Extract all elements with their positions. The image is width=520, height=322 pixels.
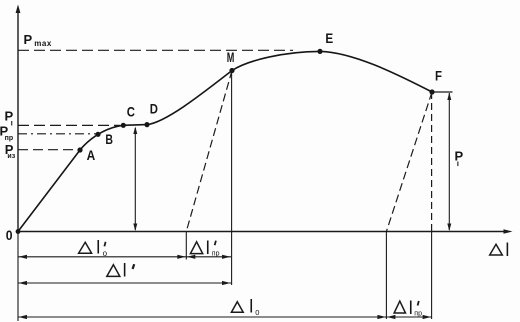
dash-dot level line P_pr (to B) (18, 133, 96, 135)
dimension line 2: delta l' (18, 282, 231, 284)
extension line at x=186 (185, 232, 187, 260)
svg-text:max: max (34, 39, 52, 48)
extension line at x=386 (385, 232, 387, 320)
label delta l_pr' (dim 1 right) (190, 242, 202, 254)
dimension line 1 right: delta l_pr' (186, 256, 231, 258)
node M (229, 68, 234, 73)
node D (144, 122, 149, 127)
svg-text:F: F (435, 68, 442, 84)
svg-text:пр: пр (5, 135, 14, 142)
svg-text:ı: ı (11, 118, 13, 127)
dimension line 3 left: delta l_0 (18, 316, 386, 318)
svg-text:D: D (150, 100, 158, 116)
svg-text:l: l (505, 240, 509, 260)
svg-text:l: l (249, 297, 253, 317)
x-axis dl (18, 231, 506, 233)
node E (317, 49, 322, 54)
svg-text:C: C (127, 103, 135, 119)
svg-text:о: о (103, 249, 108, 258)
svg-text:из: из (7, 153, 15, 160)
label delta l_pr' (dim 3 right) (394, 301, 405, 313)
label delta l_o' (dim 1 left) (79, 242, 92, 253)
P_t load dimension vertical with arrows (448, 93, 450, 230)
dashed level line P_iz (to A) (18, 149, 78, 151)
dashed level line P_max (18, 49, 293, 51)
svg-text:P: P (24, 32, 33, 47)
svg-text:E: E (325, 30, 333, 46)
svg-text:ı: ı (457, 159, 459, 168)
svg-text:0: 0 (255, 308, 259, 317)
vertical extension below axis at F (431, 232, 433, 320)
svg-text:l: l (409, 298, 413, 318)
node A (77, 147, 82, 152)
svg-text:пр: пр (414, 311, 422, 318)
svg-text:l: l (123, 261, 127, 281)
label delta l' (dim 2) (107, 265, 120, 277)
y-axis P (17, 11, 19, 232)
svg-text:0: 0 (6, 228, 13, 243)
node B (95, 132, 100, 137)
P_t load dimension at F: horizontal tick from F (434, 91, 453, 93)
svg-text:A: A (87, 147, 96, 163)
x-axis arrowhead (504, 229, 513, 234)
dashed unloading line from M (186, 71, 232, 232)
label delta l (x axis) (490, 244, 503, 255)
node 0 (origin dot) (16, 229, 21, 234)
svg-text:l: l (206, 238, 210, 258)
dashed unloading line from F (386, 92, 432, 232)
dimension line 1 left: delta l_o' (18, 256, 186, 258)
solid vertical from M down to dim line 2 (231, 71, 233, 286)
svg-text:B: B (105, 131, 113, 147)
left extension line (axis continued below origin) (17, 232, 19, 322)
vertical under plateau C-D with arrows both ends (134, 128, 136, 230)
dashed level line P_t (to C) (18, 124, 120, 126)
node F (429, 89, 434, 94)
curve 0-A-B-C-D-M-E-F (18, 51, 432, 231)
label delta l_0 (dim 3 left) (231, 302, 243, 313)
dimension line 3 right: delta l_pr' (386, 316, 431, 318)
svg-text:пр: пр (212, 250, 220, 257)
node C (121, 123, 126, 128)
svg-text:l: l (96, 238, 100, 258)
svg-text:M: M (227, 49, 235, 65)
dashed vertical from F to axis (431, 92, 433, 232)
y-axis arrowhead (16, 5, 21, 14)
